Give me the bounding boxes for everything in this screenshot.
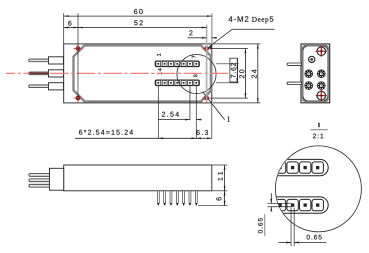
- extension line body left edge: [63, 13, 65, 44]
- end view standoff 3: [304, 81, 313, 90]
- detail ext lines pin width: [291, 208, 294, 247]
- pin number 1: [157, 54, 161, 56]
- pin number 14: [158, 68, 162, 74]
- extension line pin 7 column: [195, 86, 197, 138]
- ext side pin bottom: [198, 205, 227, 207]
- ext side body bottom: [212, 190, 227, 192]
- mounting hole M2 bottom-right: [202, 94, 211, 103]
- detail dimension 0.65 horizontal: [279, 235, 327, 243]
- extension line pin 6 column: [189, 86, 191, 120]
- dimension 6.3: [196, 130, 212, 138]
- input lead bottom: [29, 83, 64, 90]
- extension line body bottom right: [213, 102, 260, 104]
- dimension 6*2.54=15.24: [75, 130, 196, 139]
- extension line body right lower: [211, 103, 213, 138]
- end view lead lower: [287, 82, 301, 84]
- detail ext lines pin height: [268, 203, 292, 206]
- end view standoff 4: [317, 81, 326, 90]
- end view corner fillet marks: [303, 46, 327, 100]
- ext side body top: [212, 164, 227, 166]
- leader 4-M2: [208, 29, 274, 49]
- end view small circle: [309, 56, 315, 62]
- detail leader line I: [203, 92, 230, 122]
- mounting hole M2 top-left: [73, 44, 82, 53]
- extension line body right edge: [211, 13, 213, 44]
- extension line pin 1 column: [157, 86, 159, 138]
- side view connector block: [49, 168, 63, 190]
- detail circle I: [177, 54, 216, 93]
- extension line right hole column: [206, 25, 208, 101]
- dimension 60: [64, 9, 212, 16]
- end view standoff 2: [317, 70, 326, 79]
- input lead top: [29, 57, 64, 64]
- side lead 2: [29, 179, 50, 182]
- end view lead upper: [287, 63, 301, 65]
- detail pin rows (2:1): [267, 159, 328, 213]
- extension line pin row bottom: [216, 82, 239, 84]
- mounting hole M2 bottom-left: [73, 94, 82, 103]
- dimension 2: [188, 30, 217, 37]
- mounting hole M2 top-right: [202, 44, 211, 53]
- detail title I: [310, 123, 327, 139]
- top view case outline (60x24 body): [64, 44, 212, 103]
- extension line body top right: [213, 43, 260, 45]
- top view chamfered cover outline: [74, 45, 211, 101]
- dimension 20: [239, 49, 245, 99]
- extension line pin row top: [216, 63, 239, 65]
- side view body: [64, 165, 212, 191]
- side lead 1: [29, 174, 50, 177]
- pin header row pins 1-7: [155, 61, 199, 67]
- pin number 8: [193, 74, 197, 77]
- extension line top holes right: [211, 48, 248, 50]
- dimension 52: [78, 20, 207, 27]
- input lead middle: [29, 70, 64, 77]
- detail dimension 0.65 vertical: [258, 193, 271, 236]
- end view standoff 1: [304, 70, 313, 79]
- horizontal centerline: [6, 72, 228, 74]
- end view screw bottom: [316, 90, 327, 101]
- end view inner cover: [303, 46, 328, 101]
- dimension 6 side: [216, 191, 224, 206]
- note 4-M2 Deep 5: [228, 16, 273, 23]
- dimension 11: [218, 165, 225, 191]
- pin header row pins 8-14: [155, 80, 199, 86]
- side lead 3: [29, 184, 50, 187]
- extension line bottom holes right: [211, 97, 248, 99]
- end view outer outline: [301, 44, 330, 103]
- dimension 2.54: [158, 112, 201, 120]
- side view pins (7): [157, 191, 197, 206]
- dimension 7.62 boxed: [230, 58, 238, 83]
- end view screw top: [316, 46, 327, 57]
- dimension 6: [64, 21, 78, 28]
- pin number 7: [192, 56, 196, 58]
- detail boundary circle: [275, 146, 361, 232]
- extension line left hole column: [77, 13, 79, 100]
- dimension 24: [252, 44, 258, 103]
